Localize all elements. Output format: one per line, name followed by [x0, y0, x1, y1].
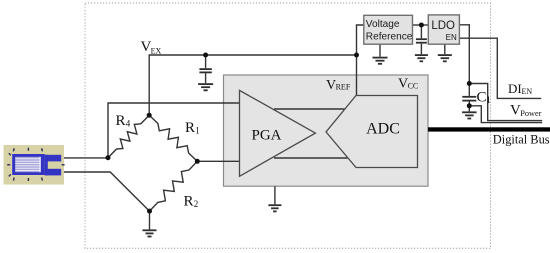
svg-text:EN: EN [522, 87, 533, 96]
svg-text:R: R [184, 194, 194, 210]
svg-text:V: V [326, 78, 336, 93]
svg-text:C: C [477, 90, 487, 106]
svg-text:LDO: LDO [431, 20, 455, 32]
svg-text:ADC: ADC [366, 121, 400, 138]
svg-text:2: 2 [194, 199, 199, 209]
svg-text:EX: EX [151, 46, 162, 55]
svg-text:1: 1 [486, 95, 491, 105]
svg-text:CC: CC [408, 81, 419, 90]
svg-text:EN: EN [446, 33, 457, 42]
svg-text:4: 4 [126, 119, 131, 129]
svg-text:Voltage: Voltage [366, 19, 400, 30]
svg-text:R: R [116, 113, 126, 129]
svg-text:1: 1 [195, 126, 200, 136]
svg-text:Digital Bus: Digital Bus [493, 133, 550, 147]
svg-text:V: V [398, 77, 408, 92]
svg-text:DI: DI [508, 81, 522, 96]
svg-text:R: R [185, 120, 195, 136]
svg-text:Reference: Reference [366, 31, 413, 42]
svg-text:REF: REF [336, 83, 351, 92]
svg-text:Power: Power [520, 109, 541, 118]
svg-text:PGA: PGA [251, 128, 281, 144]
